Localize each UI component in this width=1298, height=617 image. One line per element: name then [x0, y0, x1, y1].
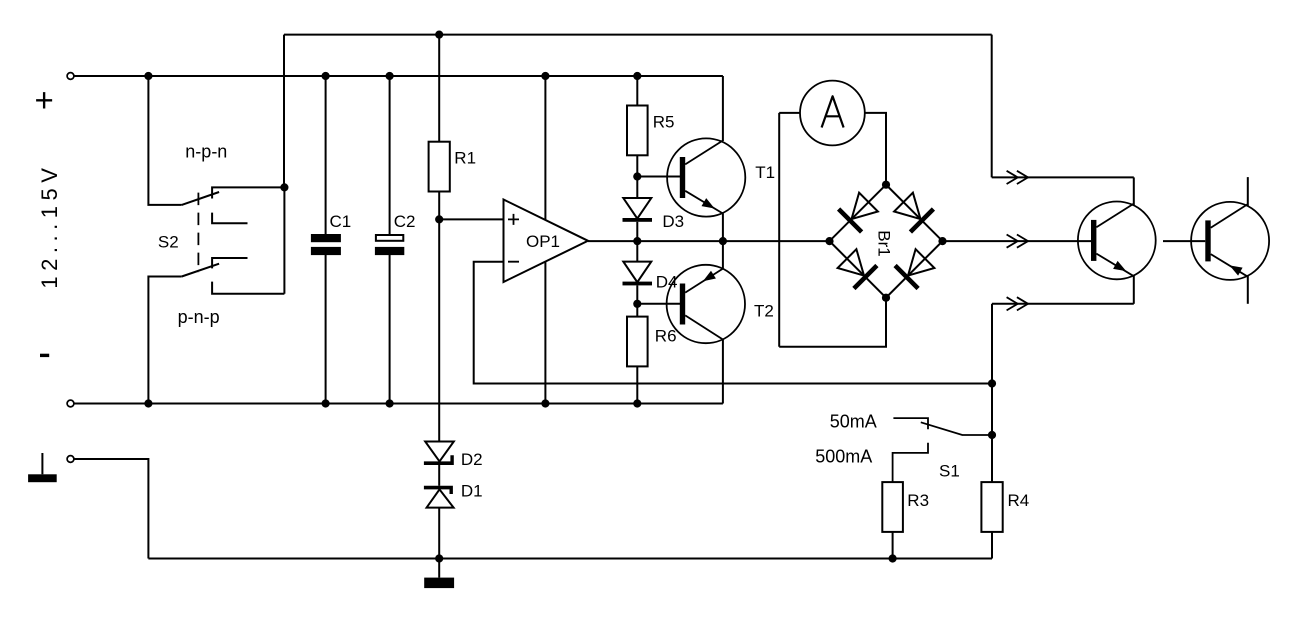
wire C2 bottom lead [389, 255, 391, 404]
wire T1 collector riser [722, 76, 724, 141]
transistor T2 [667, 265, 774, 343]
terminal chassis [67, 456, 74, 463]
wire ammeter loop top right [865, 113, 886, 185]
wire Q4 emitter stub [1247, 276, 1249, 304]
wire R3 bottom lead [892, 532, 894, 558]
svg-text:R1: R1 [454, 149, 476, 168]
svg-text:+: + [34, 81, 53, 118]
wire supply drop behind op-amp [544, 76, 546, 404]
wire Q3 emitter drop [1133, 275, 1135, 304]
svg-text:D2: D2 [461, 450, 483, 469]
wire C1 bottom lead [325, 255, 327, 404]
terminal negative supply [67, 400, 74, 407]
svg-text:D1: D1 [461, 482, 483, 501]
wire Q4 collector stub [1247, 177, 1249, 206]
wire emitter return row [992, 303, 1134, 305]
node R1 / op-amp input [435, 215, 443, 223]
node 0V / op-amp supply [541, 399, 549, 407]
wire R5 branch top [636, 76, 638, 106]
node +V / C2 [386, 72, 394, 80]
resistor R3 [882, 482, 929, 532]
wire R1 bottom to D2 [438, 192, 440, 442]
wire T2 base lead [637, 303, 680, 305]
switch S2 pole 2 lead [148, 277, 181, 404]
resistor R6 [627, 317, 677, 367]
wire T2 emitter riser [722, 241, 724, 269]
node bridge bottom vertex [882, 294, 890, 302]
svg-text:R3: R3 [907, 491, 929, 510]
wire C2 top lead [389, 76, 391, 234]
svg-text:R4: R4 [1008, 491, 1030, 510]
node bridge right vertex [938, 237, 946, 245]
transistor T1 [667, 138, 775, 216]
wire D2 to D1 [438, 465, 440, 486]
node 0V / R6 [633, 399, 641, 407]
switch S2 throw open contact lower [212, 258, 247, 268]
node 0V / C2 [386, 399, 394, 407]
wire D4 to R6 [636, 285, 638, 316]
node +V / op-amp supply [541, 72, 549, 80]
svg-text:50mA: 50mA [830, 411, 877, 431]
node bridge left vertex [825, 237, 833, 245]
output transistor Q4 (pnp) [1191, 202, 1269, 280]
resistor R5 [627, 106, 674, 156]
svg-text:S2: S2 [158, 232, 179, 251]
wire ammeter loop bottom [779, 298, 886, 347]
node bottom rail / R3 [889, 554, 897, 562]
wire bottom rail [148, 558, 992, 560]
switch S2 throw npn contact [212, 187, 284, 198]
svg-text:R6: R6 [655, 327, 677, 346]
wire C1 top lead [325, 76, 327, 234]
wire R1 top riser [438, 35, 440, 142]
node S2 npn throw [280, 183, 288, 191]
connector chevrons row 3 [1007, 297, 1028, 310]
svg-text:D3: D3 [662, 212, 684, 231]
wire D1 to bottom rail [438, 508, 440, 559]
diode D4 [623, 262, 678, 292]
node 0V / C1 [322, 399, 330, 407]
wire R6 to 0V rail [636, 366, 638, 403]
switch S1 blade [921, 422, 992, 435]
wire bridge to output stage [943, 240, 1092, 242]
terminal positive supply [67, 73, 74, 80]
wire top rail drop right [991, 35, 993, 178]
wire op-amp output to bridge [588, 240, 830, 242]
node 0V / S2 [144, 399, 152, 407]
svg-text:Br1: Br1 [875, 230, 894, 256]
wire ground terminal to bottom rail [74, 459, 148, 559]
switch S2 throw open contact upper [212, 213, 247, 224]
wire top rail [284, 34, 992, 36]
svg-text:S1: S1 [939, 462, 960, 481]
chassis ground symbol [28, 453, 57, 482]
switch S2 pole 1 blade [182, 192, 219, 205]
svg-text:n-p-n: n-p-n [185, 142, 227, 162]
wire ammeter loop top left [779, 112, 800, 114]
wire +V rail [74, 75, 723, 77]
svg-text:T1: T1 [755, 163, 775, 182]
switch S1 contact 50mA [893, 418, 928, 429]
node D4 / T2 base [633, 300, 641, 308]
output transistor Q3 (npn) [1078, 202, 1156, 280]
svg-text:T2: T2 [754, 301, 774, 320]
svg-text:OP1: OP1 [526, 232, 560, 251]
bridge Br1 diamond [830, 185, 943, 298]
svg-text:p-n-p: p-n-p [178, 307, 220, 327]
op-amp OP1 [504, 200, 589, 283]
wire feedback from inverting input [474, 262, 992, 384]
capacitor C1 [311, 212, 351, 255]
ground symbol [424, 559, 454, 589]
wire Q3 collector riser [1133, 177, 1135, 206]
connector chevrons row 2 [1007, 235, 1028, 248]
wire collector feed row [992, 176, 1134, 178]
switch S2 throw pnp contact [212, 282, 284, 294]
svg-text:C1: C1 [330, 212, 352, 231]
node R5 / T1 base [633, 172, 641, 180]
resistor R1 [429, 142, 476, 192]
zener diode D1 [424, 482, 483, 508]
node +V / C1 [322, 72, 330, 80]
connector chevrons row 1 [1007, 171, 1028, 184]
switch S2 throws common riser [283, 187, 285, 293]
bridge diode bottom-left [838, 249, 877, 288]
node T1 emitter / T2 emitter [719, 237, 727, 245]
wire 0V rail [74, 403, 723, 405]
wire op-amp noninverting input [439, 218, 503, 220]
wire T1 emitter drop [722, 214, 724, 242]
bridge diode top-right [894, 193, 933, 232]
wire T2 collector drop [722, 340, 724, 404]
node bridge top vertex [882, 181, 890, 189]
wire R5 to D3 [636, 155, 638, 198]
node top rail / R1 [435, 30, 443, 38]
node feedback / sense [988, 379, 996, 387]
zener diode D2 [424, 442, 483, 470]
wire sense riser [991, 304, 993, 482]
node +V / R5 [633, 72, 641, 80]
resistor R4 [981, 482, 1029, 532]
switch S2 pole 1 lead [148, 76, 181, 205]
switch S2 linkage (dashed) [197, 193, 199, 273]
wire R4 bottom lead [991, 532, 993, 558]
bridge diode top-left [839, 193, 878, 232]
label minus [40, 354, 49, 357]
diode D3 [623, 198, 685, 231]
node bottom rail / ground [435, 554, 443, 562]
svg-text:500mA: 500mA [815, 447, 872, 467]
switch S1 contact 500mA [893, 443, 928, 482]
svg-text:R5: R5 [653, 113, 675, 132]
wire Q4 base lead [1163, 240, 1205, 242]
node D3 / D4 / op-amp output [633, 237, 641, 245]
svg-text:12...15V: 12...15V [37, 163, 62, 289]
node +V / S2 [144, 72, 152, 80]
node S1 common [988, 431, 996, 439]
wire T1 base lead [637, 176, 680, 178]
capacitor C2 [375, 212, 416, 255]
ammeter A [800, 81, 865, 146]
switch S2 pole 2 blade [182, 264, 219, 277]
svg-text:C2: C2 [394, 212, 416, 231]
wire S2 right riser [283, 35, 285, 188]
wire ammeter loop left [778, 113, 780, 347]
wire D3 to D4 [636, 222, 638, 262]
bridge diode bottom-right [895, 249, 934, 288]
